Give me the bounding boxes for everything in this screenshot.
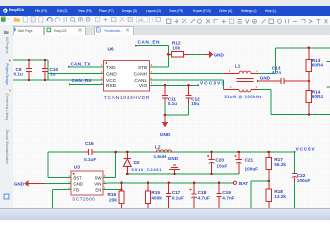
svg-text:60R4: 60R4 [312, 94, 324, 99]
svg-text:VIO: VIO [139, 83, 148, 89]
svg-text:0.1u: 0.1u [14, 72, 24, 77]
wire STB vertical riser [167, 46, 169, 67]
junction EN/R16 [120, 188, 123, 191]
svg-text:C16: C16 [85, 141, 94, 146]
svg-text:C18: C18 [198, 190, 207, 195]
junction C9 top [28, 59, 31, 62]
U6 pin names left [106, 65, 117, 89]
junction D2 anode [126, 173, 129, 176]
svg-text:L2: L2 [155, 144, 161, 149]
svg-text:C20: C20 [215, 157, 224, 162]
svg-text:4.7uF: 4.7uF [198, 196, 210, 201]
wire rail A (C16 to VCC5V corner) [97, 151, 295, 153]
svg-text:C17: C17 [172, 190, 181, 195]
svg-text:4.7n: 4.7n [272, 70, 282, 75]
wire VIN rail to BAT [103, 182, 233, 185]
junction C10 bottom [44, 79, 47, 82]
junction R13 top [308, 47, 311, 50]
inductor L2 [154, 144, 174, 159]
wire GND rail (D2 anode to C21 bottom) [127, 173, 239, 175]
svg-text:D2: D2 [134, 160, 140, 165]
resistor R18 [266, 181, 286, 208]
svg-text:0.1u: 0.1u [168, 101, 178, 106]
svg-text:VCC3V3: VCC3V3 [200, 80, 224, 85]
svg-text:BST: BST [73, 175, 82, 180]
U3 pin numbers left [68, 174, 70, 190]
svg-text:0.1uF: 0.1uF [172, 196, 184, 201]
svg-text:5: 5 [151, 81, 153, 85]
junction C20 top [210, 151, 213, 154]
svg-text:R16: R16 [108, 192, 117, 197]
svg-text:60R4: 60R4 [312, 63, 324, 68]
svg-text:VIN: VIN [94, 181, 101, 186]
capacitor C16 [84, 141, 98, 162]
wire SW riser [107, 152, 116, 177]
svg-text:FB: FB [73, 188, 79, 193]
wire bottom rail from left edge to U6 pin3 VCC [13, 79, 104, 81]
op-amp U3 SCT2600 body [71, 165, 103, 202]
svg-text:20k: 20k [109, 198, 117, 203]
node CAN_TX [68, 61, 91, 67]
svg-text:CAN_TX: CAN_TX [71, 61, 92, 66]
ground flag below C11/C12 [160, 115, 171, 138]
wire C11/C12 bottoms join [165, 104, 189, 115]
svg-text:GND: GND [168, 156, 179, 161]
wire FB node riser right [251, 181, 269, 208]
ground flag right of R12 [205, 51, 224, 59]
svg-text:BAT: BAT [239, 181, 248, 186]
svg-text:10k: 10k [172, 45, 180, 50]
junction C12 top [187, 84, 190, 87]
svg-text:CAN_EN: CAN_EN [138, 39, 161, 44]
capacitor C10 [42, 60, 59, 80]
wire R12 to GND flag [189, 53, 205, 55]
svg-text:2: 2 [230, 85, 232, 89]
wire stub right edge upper (to off-screen C15) [327, 61, 330, 63]
node VCC3V3 [197, 80, 224, 86]
wire CAN_RX to U6 pin4 [70, 84, 104, 86]
wire STB pin8 [149, 66, 168, 68]
U6 pin names right [134, 65, 148, 89]
svg-text:TCAN1042HVDR: TCAN1042HVDR [104, 95, 150, 101]
capacitor C19 [217, 183, 235, 208]
svg-text:1.5uH: 1.5uH [154, 154, 167, 159]
junction R14 bottom [308, 113, 311, 116]
capacitor C13 [258, 66, 309, 85]
svg-text:100uF: 100uF [297, 178, 311, 183]
svg-text:1: 1 [229, 69, 231, 73]
wire EN pin [103, 189, 122, 191]
U3 pin numbers right [104, 174, 106, 190]
capacitor C18 polarized [190, 183, 210, 208]
node BAT port circle [233, 181, 248, 186]
junction R16 top on VIN rail [120, 182, 123, 185]
wire bottom rail to right edge [271, 114, 330, 116]
wire CANH pin7 to L1 pin1 [149, 73, 224, 75]
wire FB pin to bottom [53, 190, 72, 208]
junction R15 top [147, 182, 150, 185]
svg-text:TXD: TXD [106, 65, 116, 71]
L1 pin numbers 1,4,2,3 [229, 69, 258, 89]
svg-text:SCT2600: SCT2600 [72, 197, 95, 202]
wire BST riser [48, 152, 67, 177]
svg-text:RXD: RXD [106, 83, 117, 89]
svg-text:400k: 400k [151, 196, 162, 201]
diode D2 [123, 152, 162, 174]
junction C10 top [44, 59, 47, 62]
resistor R12 [168, 41, 189, 57]
svg-text:10u: 10u [191, 101, 199, 106]
svg-text:CANH: CANH [134, 72, 148, 78]
svg-text:R15: R15 [151, 190, 160, 195]
wire vertical step at x48 down to U6 pin2 level [47, 60, 49, 80]
svg-text:10uF: 10uF [216, 164, 227, 169]
wire rail A (BST to C16) [48, 151, 84, 153]
junction C20 bottom [210, 173, 213, 176]
svg-text:C21: C21 [245, 158, 254, 163]
op-amp U6 TCAN1042HVDR body [104, 46, 150, 101]
svg-text:SW: SW [94, 175, 102, 180]
junction C18 top [193, 182, 196, 185]
wire top rail to right edge [275, 47, 330, 49]
U6 pin numbers right 8,7,6,5 [151, 63, 153, 85]
junction C17 top [167, 182, 170, 185]
resistor R14 [306, 81, 323, 115]
capacitor C22 on VCC5V drop [292, 152, 311, 208]
svg-text:SS16_C2481: SS16_C2481 [131, 167, 162, 172]
node VCC5V [294, 146, 316, 153]
node CAN_RX [69, 78, 93, 85]
svg-text:GND: GND [106, 72, 117, 78]
svg-text:100uF: 100uF [245, 167, 259, 172]
svg-text:GND: GND [160, 132, 171, 138]
U3 pin names right [94, 175, 102, 192]
wire L1 pin3 down to bottom rail [258, 90, 271, 115]
svg-text:C19: C19 [222, 190, 231, 195]
wire CAN_TX to U6 pin1 [69, 66, 104, 68]
svg-text:GND: GND [73, 181, 83, 186]
svg-text:1u: 1u [50, 72, 56, 77]
svg-text:56.2k: 56.2k [274, 162, 286, 167]
ground flag left of U3 [14, 180, 44, 187]
svg-text:L1: L1 [235, 63, 241, 68]
resistor R15 [145, 183, 162, 208]
svg-text:U3: U3 [74, 165, 80, 170]
resistor R17 [266, 152, 286, 181]
junction R17/R18 FB node [268, 180, 271, 183]
svg-text:CAN_RX: CAN_RX [72, 78, 93, 83]
wire CAN_EN horizontal [136, 45, 168, 47]
capacitor C9 [14, 60, 33, 80]
U3 pin names left [73, 175, 83, 192]
junction R17 top on rail A [268, 151, 271, 154]
capacitor C20 polarized [207, 152, 227, 174]
svg-text:STB: STB [138, 65, 147, 71]
wire L1 pin4 up to top rail [258, 48, 275, 74]
junction SW on rail A [114, 151, 117, 154]
wire to U6 pin2 GND [48, 73, 104, 75]
capacitor C12 [185, 85, 200, 106]
svg-text:U6: U6 [108, 46, 114, 52]
wire VIO pin5 to VCC3V3 [149, 84, 198, 86]
junction D2 on rail A [126, 151, 129, 154]
node GND label at C13 [257, 75, 271, 82]
svg-text:EN: EN [95, 188, 101, 193]
svg-text:GND: GND [214, 52, 225, 57]
svg-text:VCC5V: VCC5V [296, 146, 316, 151]
svg-text:4: 4 [256, 69, 258, 73]
U6 pin numbers left 1,2,3,4 [101, 63, 103, 85]
wire GND flag to U3 pin2 [44, 183, 71, 185]
capacitor C21 polarized [234, 152, 258, 174]
wire CANL pin6 to L1 pin2 [149, 80, 224, 90]
junction C9 bottom [28, 79, 31, 82]
junction earth on GND rail [173, 173, 176, 176]
inductor L1 common-mode choke [224, 63, 262, 99]
junction C21 top [238, 151, 241, 154]
junction C11 top [164, 84, 167, 87]
junction STB/R12 [167, 53, 170, 56]
resistor R13 [306, 48, 323, 81]
junction C19 top [218, 182, 221, 185]
svg-text:3: 3 [256, 85, 258, 89]
capacitor C11 [162, 85, 177, 106]
svg-text:4.7nF: 4.7nF [222, 196, 234, 201]
wire top rail from left edge to C10 corner (U6 GND net) [13, 59, 48, 61]
junction C11 bottom GND [164, 114, 167, 117]
resistor R16 [108, 183, 125, 208]
svg-text:0.1uF: 0.1uF [84, 157, 96, 162]
svg-text:13.2k: 13.2k [274, 194, 286, 199]
svg-text:51uH @ 100kHz: 51uH @ 100kHz [225, 94, 262, 99]
svg-text:GND: GND [14, 182, 25, 187]
earth ground symbol above GND rail [168, 156, 180, 174]
junction C13/R13/R14 [308, 80, 311, 83]
wire stub right edge lower (to off-screen C15) [327, 86, 330, 88]
svg-text:GND: GND [260, 75, 271, 80]
node CAN_EN [135, 39, 160, 46]
capacitor C17 [166, 183, 184, 208]
